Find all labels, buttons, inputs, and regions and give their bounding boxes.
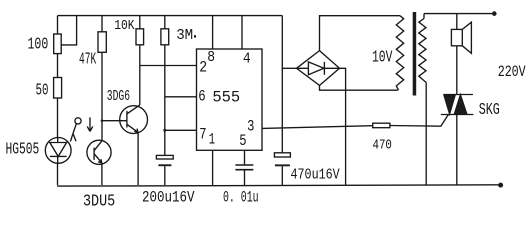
wire R100 side tap xyxy=(61,16,77,45)
wire 555 pin 3 output to triac gate xyxy=(262,115,448,129)
wire 10K vertical / 3DG6 collector xyxy=(139,16,141,105)
bridge rectifier diamond xyxy=(297,51,340,86)
light stick figure symbol xyxy=(75,118,81,124)
phototransistor 3DU5 emitter arrow xyxy=(98,159,102,163)
triac SKG right triangle xyxy=(454,95,467,115)
capacitor C 470u16V top plate xyxy=(274,153,290,157)
wire 555 pin 4 lead xyxy=(241,16,243,49)
capacitor C 470u16V bottom plate xyxy=(275,164,290,166)
svg-text:7: 7 xyxy=(199,126,206,144)
wire transformer primary bottom lead xyxy=(425,83,427,186)
svg-text:2: 2 xyxy=(199,58,207,76)
svg-text:8: 8 xyxy=(207,49,215,66)
photodiode HG505 triangle xyxy=(50,143,67,157)
wire 47K vertical to 3DU5 collector xyxy=(101,16,103,141)
svg-text:470u16V: 470u16V xyxy=(291,167,340,184)
svg-text:5: 5 xyxy=(239,132,246,150)
capacitor C 200u16V bottom plate xyxy=(158,164,171,166)
resistor R 470 xyxy=(373,123,390,128)
svg-text:10V: 10V xyxy=(372,48,392,67)
triac SKG bottom bar xyxy=(441,114,474,116)
transistor 3DG6 emitter arrow xyxy=(134,129,138,133)
transistor 3DG6 emitter xyxy=(127,124,138,132)
node pin7 junction dot xyxy=(163,129,166,132)
photodiode HG505 circle xyxy=(45,138,71,164)
wire node A base wire 47K to 3DG6 base xyxy=(102,120,127,122)
node 220V bottom terminal dot xyxy=(498,183,503,188)
transformer T1 primary winding xyxy=(423,14,425,19)
svg-text:3M: 3M xyxy=(176,28,193,44)
light arrow symbol xyxy=(87,117,93,131)
svg-text:555: 555 xyxy=(212,89,240,107)
wire C 0.01u to ground xyxy=(244,170,246,185)
svg-text:HG505: HG505 xyxy=(6,140,40,159)
resistor R 3M xyxy=(161,29,169,45)
svg-text:3DU5: 3DU5 xyxy=(83,192,115,211)
transistor 3DG6 base bar xyxy=(126,111,128,128)
bridge diode symbol xyxy=(297,62,340,75)
wire R100 top lead xyxy=(57,16,59,34)
wire top-left Vcc rail xyxy=(58,15,283,17)
svg-text:50: 50 xyxy=(36,80,49,99)
resistor R 50 xyxy=(54,78,62,99)
wire HG505 to ground rail xyxy=(57,163,59,185)
wire 555 pin 5 lead xyxy=(244,150,246,165)
wire 3DG6 emitter lead xyxy=(137,132,139,185)
svg-text:220V: 220V xyxy=(498,63,527,81)
svg-text:200u16V: 200u16V xyxy=(142,189,195,207)
svg-text:3: 3 xyxy=(247,118,254,136)
wire R100 to R50 xyxy=(57,54,59,78)
triac SKG left triangle xyxy=(444,95,455,114)
svg-text:SKG: SKG xyxy=(479,100,500,119)
wire bridge minus lead to ground xyxy=(340,68,346,185)
op-amp 555 timer box U1 xyxy=(197,49,263,150)
wire 555 pin 1 lead to ground xyxy=(212,150,214,185)
transformer T1 core xyxy=(413,12,417,96)
transistor Q 3DG6 circle xyxy=(120,106,148,134)
speaker LS1 xyxy=(451,29,462,45)
wire bottom ground rail xyxy=(57,185,500,186)
wire R50 to HG505 xyxy=(57,98,59,138)
transformer T1 secondary winding 10V xyxy=(396,16,403,91)
phototransistor 3DU5 collector xyxy=(94,141,102,151)
resistor R 100 xyxy=(54,34,62,54)
phototransistor 3DU5 base bar xyxy=(93,148,95,160)
svg-text:6: 6 xyxy=(198,88,205,106)
svg-text:100: 100 xyxy=(28,35,49,54)
resistor R 47K xyxy=(98,32,106,53)
photodiode HG505 cathode bar xyxy=(50,155,67,157)
svg-text:3DG6: 3DG6 xyxy=(107,89,130,105)
capacitor C 200u16V top plate xyxy=(156,155,173,159)
svg-text:470: 470 xyxy=(373,137,392,153)
svg-text:0. 01u: 0. 01u xyxy=(223,189,259,207)
wire 3M vertical down to C 200u xyxy=(164,16,166,156)
svg-text:47K: 47K xyxy=(79,50,96,69)
wire triac bottom lead to ground xyxy=(456,115,458,186)
wire 555 pin 2 xyxy=(140,65,197,67)
wire 555 pin 6 xyxy=(165,96,197,98)
wire C 470u to ground xyxy=(281,166,283,185)
svg-text:1: 1 xyxy=(209,131,215,149)
wire bridge top AC lead xyxy=(320,16,401,51)
wire speaker to triac xyxy=(456,46,458,95)
node 220V top terminal dot xyxy=(492,11,497,16)
triac SKG top bar xyxy=(444,94,473,96)
capacitor C 0.01u plates xyxy=(235,165,253,170)
wire 555 pin 8 lead xyxy=(212,16,214,49)
svg-text:10K: 10K xyxy=(114,18,135,34)
wire 555 pin 7 xyxy=(165,129,197,131)
node A junction dot xyxy=(101,119,104,122)
svg-text:4: 4 xyxy=(243,50,251,67)
transistor 3DG6 collector xyxy=(127,105,140,114)
wire C 200u to ground xyxy=(164,166,166,185)
label 3M trailing dot xyxy=(194,35,196,37)
wire speaker top lead xyxy=(456,14,458,30)
wire bridge bottom AC lead xyxy=(320,85,398,90)
wire 3DU5 emitter lead xyxy=(101,163,103,185)
phototransistor 3DU5 emitter xyxy=(94,154,102,163)
wire top-right 220V rail xyxy=(424,13,494,15)
phototransistor Q 3DU5 circle xyxy=(87,140,111,164)
resistor R 10K xyxy=(136,29,144,45)
wire HG505 inner leads xyxy=(57,138,59,164)
wire bridge plus output xyxy=(282,67,296,69)
wire Vcc vertical to C 470u xyxy=(281,16,283,153)
